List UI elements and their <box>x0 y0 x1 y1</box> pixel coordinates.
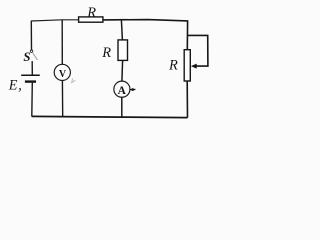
ammeter needle arrow <box>129 88 133 91</box>
resistor R2 (middle box) <box>118 40 128 61</box>
wire middle branch upper <box>121 20 122 40</box>
battery E short plate <box>25 80 36 82</box>
wire voltmeter branch upper <box>61 20 63 65</box>
svg-text:S: S <box>23 50 30 64</box>
rheostat wiper arrowhead <box>191 64 197 69</box>
wire middle branch lower <box>121 97 123 117</box>
wire middle branch mid <box>121 60 124 81</box>
svg-text:R: R <box>168 58 178 74</box>
svg-text:R: R <box>86 5 96 21</box>
wire bottom rail <box>32 116 188 117</box>
wire left rail upper <box>30 21 32 50</box>
wire top rail left segment <box>31 20 78 21</box>
wire left rail lower <box>31 83 34 117</box>
wire right rail upper <box>186 20 188 49</box>
voltmeter V circle <box>54 64 70 80</box>
wire rheostat wiper loop <box>188 35 208 66</box>
resistor R1 (top box) <box>79 17 103 22</box>
switch S contact <box>30 50 32 52</box>
wire left rail mid <box>31 61 33 75</box>
wire voltmeter branch lower <box>61 81 63 118</box>
svg-text:R: R <box>101 45 111 61</box>
svg-text:E,: E, <box>8 78 22 94</box>
battery E long plate <box>21 74 40 76</box>
svg-text:A: A <box>118 85 127 97</box>
wire top rail right segment <box>103 20 188 21</box>
switch S blade <box>33 53 38 60</box>
rheostat R3 box <box>184 50 190 81</box>
wire right rail lower <box>186 81 188 118</box>
ammeter A circle <box>114 81 130 97</box>
artifact mark near V <box>72 78 76 82</box>
svg-text:V: V <box>59 69 67 80</box>
